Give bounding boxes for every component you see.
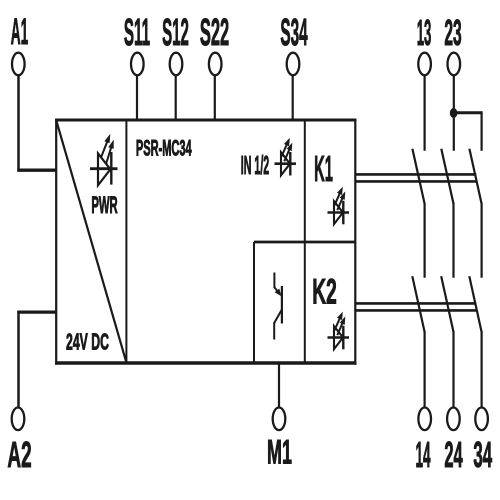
- svg-text:IN 1/2: IN 1/2: [241, 152, 269, 181]
- terminal S12: [162, 12, 189, 75]
- LED K1: [328, 187, 350, 225]
- LED PWR: [90, 134, 118, 186]
- svg-text:14: 14: [415, 434, 431, 475]
- K1/K2 divider: [254, 241, 355, 244]
- terminal S11: [124, 12, 150, 75]
- svg-text:23: 23: [444, 13, 461, 53]
- wire contact column 1 mid: [424, 203, 426, 278]
- svg-text:S34: S34: [280, 12, 307, 54]
- svg-text:34: 34: [473, 434, 492, 475]
- contact K2 blade 2: [441, 276, 453, 332]
- terminal 13: [417, 12, 432, 76]
- terminal 24: [444, 408, 463, 475]
- contact K1 blade 3: [469, 149, 481, 204]
- mechanical link K2: [355, 303, 476, 310]
- svg-text:M1: M1: [267, 432, 292, 471]
- terminal 34: [473, 408, 492, 475]
- svg-text:13: 13: [417, 12, 432, 53]
- terminal A2: [7, 408, 31, 476]
- svg-text:A2: A2: [7, 436, 31, 476]
- svg-text:24: 24: [444, 435, 463, 475]
- svg-text:24V DC: 24V DC: [66, 328, 109, 354]
- svg-text:A1: A1: [11, 11, 28, 52]
- terminal 23: [444, 13, 461, 76]
- wire contact column 3 bottom: [481, 331, 483, 408]
- wire S34: [292, 75, 294, 121]
- wire contact column 2 bottom: [452, 331, 454, 408]
- LED K2: [328, 312, 350, 350]
- relay body box: [55, 119, 356, 365]
- wire contact column 3 mid: [481, 203, 483, 278]
- wire M1: [278, 363, 280, 407]
- node junction 23/33: [450, 108, 458, 118]
- power section divider: [125, 120, 127, 363]
- svg-text:K1: K1: [314, 148, 333, 189]
- relay column divider: [304, 120, 306, 363]
- terminal S34: [280, 12, 307, 75]
- contact K1 blade 2: [441, 149, 453, 204]
- svg-text:PWR: PWR: [91, 191, 118, 218]
- terminal M1: [267, 408, 292, 472]
- wire S22: [214, 75, 216, 121]
- wire A1: [17, 75, 56, 171]
- terminal 14: [415, 408, 431, 475]
- terminal A1: [11, 11, 28, 75]
- svg-text:S22: S22: [200, 13, 229, 55]
- wire 13: [424, 75, 426, 150]
- svg-text:PSR-MC34: PSR-MC34: [136, 135, 192, 160]
- contact K2 blade 1: [412, 276, 424, 332]
- power section diagonal: [57, 121, 127, 362]
- wire 23: [453, 75, 455, 150]
- wire jumper 23 to 33: [454, 111, 482, 151]
- mechanical link K1: [355, 174, 476, 181]
- semiconductor section edge: [253, 242, 255, 363]
- terminal S22: [200, 13, 229, 76]
- LED IN 1/2: [275, 138, 297, 176]
- contact K1 blade 1: [412, 149, 424, 204]
- wire contact column 1 bottom: [424, 331, 426, 408]
- wire S12: [175, 75, 177, 121]
- svg-text:S12: S12: [162, 12, 189, 54]
- wire S11: [136, 75, 138, 121]
- wire A2: [17, 311, 56, 407]
- wire contact column 2 mid: [452, 203, 454, 278]
- svg-text:S11: S11: [124, 12, 150, 54]
- svg-text:K2: K2: [312, 271, 337, 311]
- contact K2 blade 3: [469, 276, 481, 332]
- semiconductor output transistor: [274, 273, 282, 340]
